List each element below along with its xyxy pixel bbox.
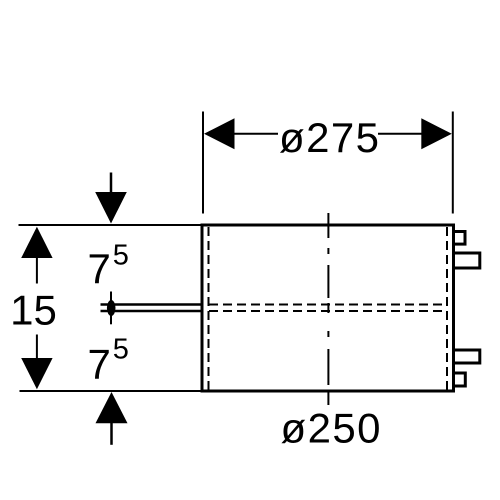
faceplate top reference line: [19, 224, 203, 226]
svg-text:5: 5: [113, 334, 129, 366]
svg-text:ø250: ø250: [281, 405, 381, 452]
tab top small: [454, 232, 466, 245]
svg-text:15: 15: [10, 287, 57, 334]
dim 15 lower tail: [36, 335, 38, 359]
svg-text:7: 7: [88, 245, 111, 292]
faceplate bottom reference line: [20, 390, 203, 392]
dim 15 upper tail: [36, 258, 38, 284]
tab top large: [454, 253, 480, 268]
bottom pointer arrow tail: [110, 422, 113, 445]
hidden water line upper (dashed): [209, 304, 447, 306]
dim 15 arrowhead up: [21, 227, 52, 258]
top pointer arrow tail: [110, 173, 113, 194]
hidden water line lower (dashed): [209, 310, 447, 312]
vertical center line (dash-dot): [327, 213, 329, 405]
top pointer arrowhead (down): [95, 192, 127, 224]
tab bottom small: [454, 373, 466, 386]
supply connection point (dot): [107, 300, 116, 316]
svg-text:5: 5: [113, 240, 129, 272]
extension line right (ø275): [452, 112, 454, 214]
bottom pointer arrowhead (up): [96, 392, 128, 423]
inner hidden edge right (dashed): [446, 227, 448, 390]
supply connection stub line: [110, 292, 112, 325]
svg-text:7: 7: [88, 341, 111, 388]
svg-text:ø275: ø275: [279, 114, 379, 161]
dim 15 arrowhead down: [21, 358, 52, 389]
supply pipe double line: [101, 303, 203, 305]
cistern body outline: [202, 225, 454, 391]
arrowhead ø275 right: [421, 118, 452, 149]
inner hidden edge left (dashed): [208, 227, 210, 390]
tab bottom large: [454, 350, 480, 363]
extension line left (ø275): [202, 112, 204, 214]
dimension line ø275 right segment: [378, 133, 423, 135]
arrowhead ø275 left: [204, 118, 235, 149]
dimension line ø275 left segment: [233, 133, 278, 135]
